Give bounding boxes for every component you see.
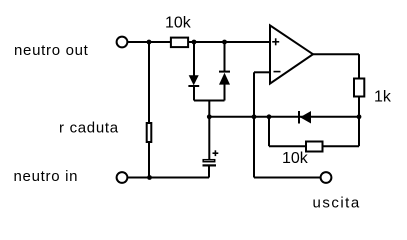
wire feedback horizontal (209, 116, 359, 118)
node junction D1 top (192, 40, 197, 45)
terminal neutro in (117, 172, 128, 183)
wire vertical r-caduta branch (148, 42, 150, 178)
resistor R3 10k bottom (282, 142, 323, 168)
capacitor C1 (203, 150, 219, 165)
resistor R1 10k top (165, 14, 192, 47)
wire diode pair to node (208, 101, 210, 160)
node junction D2 top (222, 40, 227, 45)
wire bottom left horizontal (127, 177, 209, 179)
svg-text:neutro out: neutro out (14, 42, 89, 59)
wire D2 leg (224, 42, 226, 101)
wire op-amp inverting input (254, 71, 270, 73)
resistor R4 r caduta (59, 120, 151, 143)
node inverting input (252, 114, 257, 119)
svg-text:10k: 10k (282, 150, 309, 167)
svg-text:uscita: uscita (313, 195, 361, 212)
wire output vertical (358, 54, 360, 146)
node junction top-left (147, 40, 152, 45)
diode D1 down (188, 75, 199, 86)
wire top horizontal (127, 41, 270, 43)
svg-text:1k: 1k (374, 89, 392, 106)
wire uscita horizontal (254, 177, 321, 179)
wire D1 leg (193, 42, 195, 101)
node loop left (267, 114, 272, 119)
wire capacitor bottom lead (208, 165, 210, 177)
diode D2 up (219, 72, 230, 85)
wire loop bottom horizontal (269, 145, 359, 147)
svg-text:r caduta: r caduta (59, 120, 119, 137)
wire op-amp output (313, 53, 359, 55)
svg-text:10k: 10k (165, 14, 192, 31)
svg-text:neutro in: neutro in (14, 168, 79, 185)
node feedback left (207, 114, 212, 119)
op-amp U1 (270, 25, 313, 83)
node feedback right (357, 114, 362, 119)
diode D3 left (299, 111, 311, 124)
terminal uscita (321, 172, 332, 183)
resistor R2 1k (354, 79, 392, 106)
node bottom left junction (147, 175, 152, 180)
wire loop left vertical (268, 117, 270, 146)
wire inverting feedback vertical (253, 72, 255, 177)
terminal neutro out (117, 37, 128, 48)
wire diode pair bottom bar (194, 100, 225, 102)
